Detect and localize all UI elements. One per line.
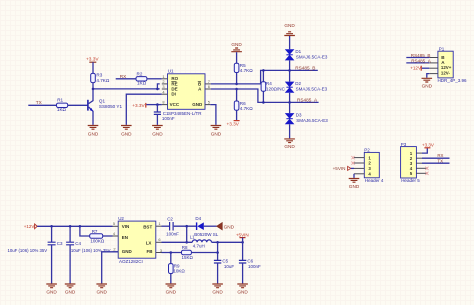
svg-text:10uF: 10uF — [224, 264, 235, 269]
svg-text:GND: GND — [65, 290, 76, 295]
wire RX to R2 — [116, 78, 136, 80]
svg-text:R7: R7 — [92, 229, 98, 234]
pin 5 U1 — [205, 104, 210, 106]
pin 3 U1 — [162, 88, 168, 90]
wire +12V rail — [37, 225, 112, 227]
wire C2 to D4 — [174, 225, 197, 227]
svg-text:+12V: +12V — [24, 224, 35, 229]
resistor R6 — [234, 89, 253, 111]
svg-text:P3: P3 — [401, 142, 407, 147]
svg-text:2: 2 — [113, 247, 115, 252]
svg-text:FB: FB — [147, 249, 154, 254]
svg-text:GND: GND — [284, 23, 295, 28]
svg-text:GND: GND — [46, 290, 57, 295]
wire R2 to RO pin — [147, 78, 162, 80]
resistor R3 — [91, 73, 110, 83]
pin 1 P2 — [354, 157, 364, 159]
pin 2 U1 — [162, 83, 168, 85]
svg-text:D4: D4 — [195, 216, 201, 221]
svg-text:R8: R8 — [182, 245, 188, 250]
svg-text:P2: P2 — [364, 148, 370, 153]
svg-text:P1: P1 — [439, 46, 445, 51]
node R4 bottom junction — [262, 101, 265, 104]
ground (below D3) — [284, 139, 295, 149]
pin 8 U1 — [162, 104, 168, 106]
wire U2 GND pin to ground — [102, 252, 119, 284]
node collector junction — [92, 88, 95, 91]
wire TX from P3 — [422, 162, 450, 164]
svg-text:5: 5 — [208, 100, 210, 105]
svg-text:U2: U2 — [118, 216, 124, 221]
pin 5 U2 — [113, 225, 119, 227]
svg-text:15KΩ: 15KΩ — [182, 255, 194, 260]
pin 6 U2 — [156, 241, 162, 243]
resistor R4 120R/NC — [261, 70, 285, 102]
svg-text:L1: L1 — [190, 234, 195, 239]
node output/C5 junction — [216, 241, 219, 244]
ground (C6) — [237, 284, 248, 295]
diode D2 SMAJ6.5CA-E3 — [285, 70, 328, 102]
svg-text:LX: LX — [146, 241, 152, 246]
svg-text:12V+: 12V+ — [441, 65, 452, 70]
node RE/DE tie junction — [156, 88, 159, 91]
wire +5VIN to P2 — [351, 167, 354, 169]
pin 4 P3 — [416, 167, 427, 169]
svg-text:GND: GND — [166, 290, 177, 295]
wire collector node to DE pin — [93, 88, 160, 90]
wire D1 to B — [289, 60, 291, 70]
svg-text:HDR_4P_3.96: HDR_4P_3.96 — [438, 78, 468, 83]
ground (P2 pin4) — [349, 179, 360, 189]
svg-text:10uF (106) 10% 35V: 10uF (106) 10% 35V — [8, 248, 48, 253]
transistor Q1 — [88, 89, 123, 125]
wire FB — [162, 252, 182, 254]
ground (DI wire) — [121, 126, 132, 137]
ground (C4) — [65, 284, 76, 295]
svg-text:GND: GND — [211, 131, 222, 136]
capacitor C2 100nF — [166, 216, 179, 236]
svg-text:GND: GND — [422, 84, 433, 89]
svg-text:100nF: 100nF — [166, 231, 179, 236]
resistor R2 — [136, 71, 147, 85]
capacitor C4 10uF — [66, 226, 111, 283]
pin 3 P2 — [354, 167, 364, 169]
power +3.3V (below R6) — [227, 110, 240, 126]
pin 2 P3 — [416, 157, 422, 159]
wire VCC — [146, 104, 161, 106]
ground (U2 GND) — [96, 284, 107, 295]
wire RX from P3 — [422, 157, 450, 159]
svg-text:BST: BST — [143, 225, 152, 230]
ground (P1 12V-) — [422, 78, 433, 88]
inductor L1 4.7uH — [190, 234, 212, 248]
pin 4 P1 — [429, 73, 438, 75]
wire P1 pin4 to ground — [427, 74, 430, 78]
svg-text:6: 6 — [158, 237, 160, 242]
pin 2 U2 — [113, 251, 119, 253]
node output/C6 junction — [241, 241, 244, 244]
wire GND to R5 — [236, 52, 238, 63]
node LX junction — [185, 241, 188, 244]
ground (above D1, inverted) — [284, 23, 295, 35]
node R6/A junction — [235, 88, 238, 91]
pin 4 U1 — [162, 93, 168, 95]
ground (R9) — [166, 284, 177, 295]
pin 1 P2 no-connect — [351, 156, 354, 159]
svg-text:R3: R3 — [96, 73, 102, 78]
svg-text:AOZ1282CI: AOZ1282CI — [119, 259, 143, 264]
ground (Q1 emitter) — [88, 126, 99, 137]
node D1/B junction — [288, 69, 291, 72]
capacitor C6 100nF — [239, 242, 261, 283]
power +3.3V (P3) — [422, 143, 434, 148]
pin 2 P1 — [429, 62, 438, 64]
resistor R5 — [234, 63, 253, 73]
node FB junction — [216, 251, 219, 254]
wire A net — [211, 89, 319, 102]
pin 5 P3 no-connect — [425, 172, 428, 175]
svg-text:4.7KΩ: 4.7KΩ — [240, 106, 253, 111]
svg-text:GND: GND — [231, 42, 242, 47]
pin 4 P3 no-connect — [425, 167, 428, 170]
svg-text:4.7KΩ: 4.7KΩ — [96, 78, 109, 83]
node R5/B junction — [235, 83, 238, 86]
svg-text:12V-: 12V- — [441, 71, 451, 76]
pin 1 U2 — [156, 225, 162, 227]
svg-text:GND: GND — [88, 131, 99, 136]
capacitor C5 10uF — [214, 259, 235, 284]
pin 4 U2 — [113, 235, 119, 237]
diode D4 B0520W — [194, 216, 219, 237]
svg-text:1KΩ: 1KΩ — [57, 107, 67, 112]
pin 5 P3 — [416, 172, 427, 174]
svg-text:R9: R9 — [174, 263, 180, 268]
svg-text:+3.3V: +3.3V — [132, 103, 145, 108]
wire LX to L1 — [162, 241, 193, 243]
ground (above R5, inverted) — [231, 42, 242, 52]
svg-text:B0520W SL: B0520W SL — [194, 232, 219, 237]
svg-text:+3.3V: +3.3V — [227, 121, 240, 126]
svg-text:GND: GND — [224, 224, 235, 229]
node R9 junction — [170, 251, 173, 254]
svg-text:10KΩ: 10KΩ — [173, 269, 185, 274]
power +3.3V (U1 VCC) — [132, 103, 146, 108]
wire pin5 to ground — [210, 105, 216, 125]
svg-text:RX: RX — [120, 74, 127, 79]
wire DI to ground — [126, 94, 162, 125]
wire TX to R1 — [28, 104, 56, 106]
svg-text:+3.3V: +3.3V — [422, 143, 434, 148]
wire R1 to Q1 base — [68, 104, 88, 106]
svg-text:R2: R2 — [137, 71, 143, 76]
pin 1 U1 — [162, 78, 168, 80]
svg-text:SMAJ6.5CA-E3: SMAJ6.5CA-E3 — [296, 87, 328, 92]
svg-text:Header 5: Header 5 — [401, 178, 420, 183]
pin 3 P1 — [429, 67, 438, 69]
svg-text:100nF: 100nF — [248, 264, 261, 269]
wire output to FB divider — [217, 242, 219, 260]
resistor R8 15K — [182, 245, 218, 260]
svg-text:1: 1 — [158, 221, 160, 226]
svg-text:TX: TX — [36, 100, 43, 105]
svg-text:GND: GND — [212, 290, 223, 295]
svg-text:GND: GND — [237, 290, 248, 295]
resistor R1 — [57, 97, 68, 112]
svg-text:+3.3V: +3.3V — [86, 56, 99, 62]
resistor R9 10K — [169, 253, 186, 284]
pin 2 P2 — [354, 162, 364, 164]
svg-text:U1: U1 — [168, 69, 174, 74]
pin 3 U2 — [156, 252, 162, 254]
connector P1 HDR_4P_3.96 — [438, 46, 468, 83]
ground (C5) — [212, 284, 223, 295]
svg-text:Q1: Q1 — [99, 99, 106, 104]
resistor R7 100K — [80, 226, 113, 243]
pin 1 P1 — [429, 57, 438, 59]
svg-text:120Ω/NC: 120Ω/NC — [266, 87, 286, 92]
power +3.3V (top of R3) — [86, 56, 99, 73]
pin 4 P2 — [354, 173, 364, 175]
wire P3 pin1 to +3.3V — [422, 148, 427, 153]
pin 2 P2 no-connect — [351, 162, 354, 165]
svg-text:100nF: 100nF — [162, 116, 175, 121]
svg-text:4.7KΩ: 4.7KΩ — [240, 68, 253, 73]
wire RS485_B to P1 — [406, 57, 429, 59]
svg-text:GND: GND — [349, 184, 360, 189]
svg-text:6: 6 — [208, 84, 210, 89]
ground (U1 pin5) — [211, 126, 222, 137]
op-amp U1 SP3485EN-L/TR body — [168, 69, 206, 116]
port +12V (buck input) — [24, 224, 37, 229]
wire RE/DE tie — [157, 84, 159, 89]
svg-text:TX: TX — [437, 158, 443, 163]
pin 7 U1 — [205, 83, 211, 85]
diode D3 SMAJ6.5CA-E3 — [285, 102, 329, 138]
svg-text:VCC: VCC — [170, 102, 180, 107]
svg-text:+12V: +12V — [410, 65, 422, 70]
svg-text:100KΩ: 100KΩ — [90, 239, 105, 244]
svg-text:SMAJ6.5CA-E3: SMAJ6.5CA-E3 — [296, 118, 328, 123]
svg-text:GND: GND — [192, 102, 203, 107]
svg-text:R1: R1 — [57, 97, 63, 102]
svg-text:C3: C3 — [57, 241, 63, 246]
svg-text:GND: GND — [121, 131, 132, 136]
svg-text:1KΩ: 1KΩ — [137, 80, 147, 85]
wire junction down to LX — [186, 226, 188, 242]
node BST/LX junction — [185, 225, 188, 228]
svg-text:C4: C4 — [75, 241, 81, 246]
power +12V (P1) — [410, 65, 422, 70]
node C4 junction — [69, 225, 72, 228]
svg-text:SMAJ6.5CA-E3: SMAJ6.5CA-E3 — [296, 55, 328, 60]
port +5VIN (P2) — [333, 166, 351, 171]
svg-text:Header 4: Header 4 — [365, 178, 384, 183]
svg-text:RS485_A: RS485_A — [411, 59, 432, 64]
svg-text:+5VIN: +5VIN — [333, 166, 346, 171]
svg-text:5: 5 — [113, 221, 115, 226]
svg-text:C2: C2 — [167, 216, 173, 221]
pin 3 P3 — [416, 162, 422, 164]
capacitor C3 10uF — [8, 226, 64, 283]
wire GND to D1 — [289, 36, 291, 49]
wire P2 pin4 to ground — [353, 174, 355, 178]
svg-text:D2: D2 — [295, 81, 301, 86]
svg-text:GND: GND — [96, 290, 107, 295]
wire R3 to collector node — [92, 83, 94, 89]
wire +12V to P1 — [422, 67, 430, 69]
ground (C1) — [152, 126, 163, 137]
node VCC/C1 junction — [156, 103, 159, 106]
svg-text:GND: GND — [284, 144, 295, 149]
connector P2 Header 4 — [364, 148, 384, 183]
svg-text:GND: GND — [122, 249, 133, 254]
wire R5 to B net — [236, 73, 238, 84]
connector P3 Header 5 — [401, 142, 421, 183]
wire L1 to output node — [212, 241, 244, 243]
wire BST — [162, 225, 170, 227]
diode D1 SMAJ6.5CA-E3 — [285, 49, 328, 60]
svg-text:SS8050 Y1: SS8050 Y1 — [99, 104, 123, 109]
svg-text:RS485_A: RS485_A — [297, 98, 318, 103]
svg-text:DI: DI — [171, 92, 176, 97]
op-amp U2 AOZ1282CI body — [118, 216, 156, 264]
svg-text:RS485_B: RS485_B — [295, 65, 315, 70]
capacitor C1 100nF — [154, 105, 175, 125]
node R7 junction — [79, 225, 82, 228]
wire RS485_A to P1 — [406, 62, 429, 64]
node R4 top junction — [262, 69, 265, 72]
node C3 junction — [50, 225, 53, 228]
wire D4 to GND port — [204, 225, 217, 227]
svg-text:8: 8 — [162, 100, 164, 105]
svg-text:+5VIN: +5VIN — [236, 233, 249, 238]
svg-text:EN: EN — [122, 235, 128, 240]
node D2/A junction — [288, 101, 291, 104]
svg-text:VIN: VIN — [122, 224, 130, 229]
svg-text:D1: D1 — [295, 49, 301, 54]
wire B net — [211, 70, 318, 84]
svg-text:4.7uH: 4.7uH — [193, 244, 205, 249]
pin 1 P3 — [416, 152, 422, 154]
ground (C3) — [46, 284, 57, 295]
svg-text:GND: GND — [152, 131, 163, 136]
svg-text:RS485_B: RS485_B — [411, 53, 431, 58]
pin 6 U1 — [205, 88, 211, 90]
svg-text:R4: R4 — [266, 81, 272, 86]
port GND (D4 anode) — [217, 223, 235, 230]
power +5VIN (output) — [236, 233, 249, 243]
